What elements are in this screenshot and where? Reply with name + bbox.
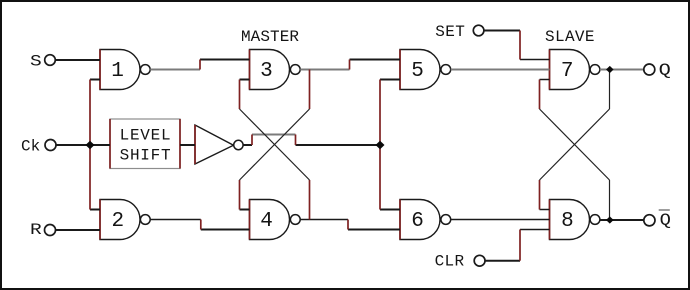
svg-text:7: 7	[561, 60, 574, 83]
svg-text:SLAVE: SLAVE	[545, 28, 595, 46]
svg-text:4: 4	[260, 210, 273, 233]
svg-text:SET: SET	[435, 23, 465, 41]
svg-text:2: 2	[111, 210, 124, 233]
svg-text:Q: Q	[660, 211, 671, 230]
svg-text:3: 3	[260, 60, 273, 83]
svg-text:Ck: Ck	[21, 138, 40, 156]
svg-text:SHIFT: SHIFT	[120, 147, 171, 165]
svg-text:6: 6	[411, 210, 424, 233]
svg-text:LEVEL: LEVEL	[120, 127, 171, 145]
svg-text:8: 8	[561, 210, 574, 233]
svg-text:CLR: CLR	[435, 253, 465, 271]
svg-text:5: 5	[411, 60, 424, 83]
svg-text:Q: Q	[659, 60, 671, 79]
svg-text:1: 1	[111, 60, 124, 83]
svg-text:MASTER: MASTER	[241, 28, 299, 46]
svg-text:R: R	[30, 221, 42, 239]
svg-text:S: S	[30, 53, 42, 71]
